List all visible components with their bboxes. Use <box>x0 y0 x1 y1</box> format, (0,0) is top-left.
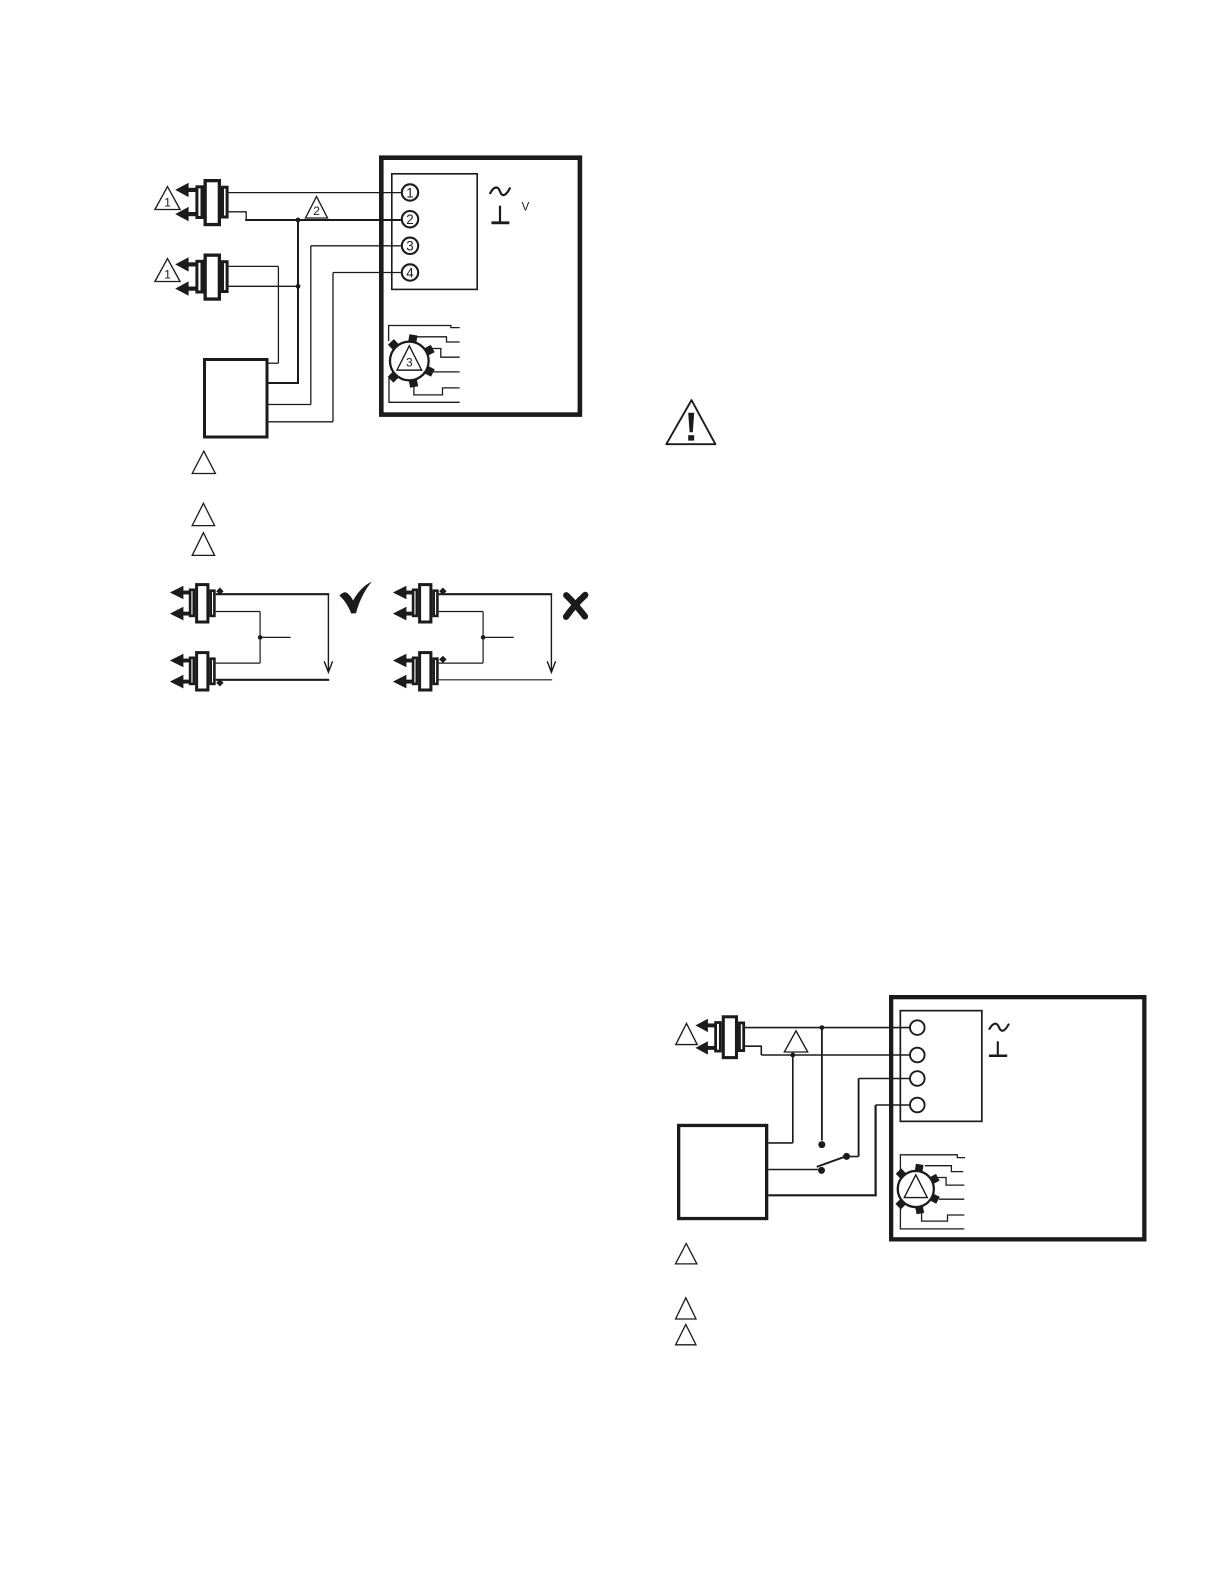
svg-text:2: 2 <box>313 204 320 218</box>
svg-text:4: 4 <box>406 265 414 280</box>
svg-text:2: 2 <box>406 212 413 227</box>
svg-text:1: 1 <box>164 195 171 209</box>
svg-text:1: 1 <box>164 267 171 281</box>
svg-text:3: 3 <box>406 239 413 254</box>
svg-text:3: 3 <box>406 356 413 370</box>
svg-text:1: 1 <box>406 185 413 200</box>
svg-text:V: V <box>522 202 530 214</box>
